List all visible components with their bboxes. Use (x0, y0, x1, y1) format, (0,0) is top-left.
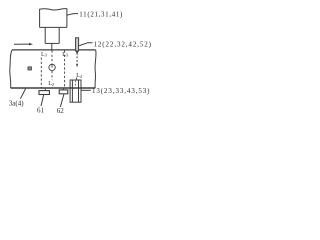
svg-text:3: 3 (66, 53, 68, 58)
svg-text:62: 62 (57, 107, 65, 115)
svg-text:3a(4): 3a(4) (9, 99, 24, 107)
svg-text:12(22,32,42,52): 12(22,32,42,52) (94, 40, 152, 48)
svg-text:11(21,31,41): 11(21,31,41) (79, 11, 123, 19)
svg-text:61: 61 (37, 107, 45, 115)
svg-text:13(23,33,43,53): 13(23,33,43,53) (92, 87, 150, 95)
svg-text:4: 4 (80, 74, 83, 79)
svg-text:3: 3 (45, 53, 47, 58)
svg-text:2: 2 (52, 82, 54, 87)
